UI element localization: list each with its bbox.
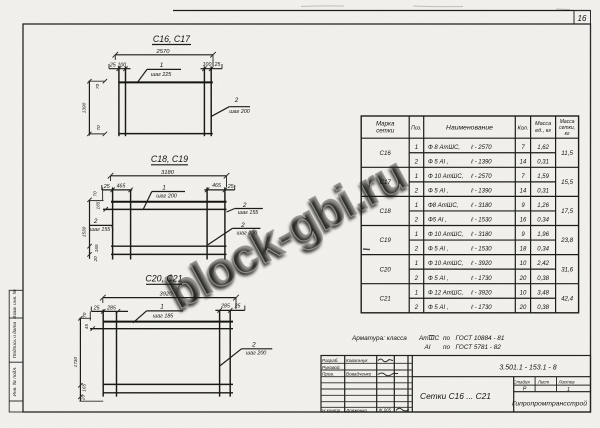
svg-text:ℓ - 1730: ℓ - 1730	[470, 304, 492, 311]
svg-text:165: 165	[82, 384, 87, 392]
svg-text:2: 2	[414, 305, 419, 311]
svg-text:25: 25	[214, 62, 221, 68]
svg-text:20: 20	[93, 256, 98, 263]
svg-text:шаг 185: шаг 185	[153, 313, 175, 319]
svg-text:2: 2	[414, 218, 419, 224]
svg-text:Р: Р	[523, 387, 527, 393]
svg-text:ℓ - 3920: ℓ - 3920	[470, 260, 492, 267]
svg-text:ℓ - 1730: ℓ - 1730	[470, 275, 492, 282]
drawing title cell Сетки С16...С21	[420, 377, 514, 412]
svg-text:1,96: 1,96	[537, 232, 549, 238]
svg-text:Кол.: Кол.	[518, 126, 529, 132]
svg-text:45: 45	[84, 324, 89, 330]
svg-text:С19: С19	[380, 237, 392, 244]
svg-text:Ф 5 АI ,: Ф 5 АI ,	[428, 305, 448, 311]
C20 overall dimension 3920	[100, 292, 239, 309]
svg-text:Ф5 АI ,: Ф5 АI ,	[428, 218, 447, 224]
svg-text:25: 25	[93, 306, 100, 312]
svg-text:Н.контр.: Н.контр.	[322, 408, 341, 413]
svg-text:0,31: 0,31	[537, 188, 549, 194]
svg-text:1: 1	[415, 145, 418, 151]
svg-text:ℓ - 3180: ℓ - 3180	[470, 231, 492, 238]
table mark and total mass cells	[380, 150, 574, 303]
svg-text:С16: С16	[380, 150, 392, 157]
svg-text:3,48: 3,48	[537, 290, 549, 296]
svg-text:2: 2	[251, 342, 256, 349]
svg-text:АтШС: АтШС	[418, 335, 439, 342]
svg-text:С17: С17	[380, 179, 392, 186]
svg-text:Ф 12 АтШС,: Ф 12 АтШС,	[428, 290, 463, 296]
svg-text:шаг 200: шаг 200	[246, 351, 267, 357]
table data rows	[414, 144, 550, 311]
mesh drawing C18,C19 title	[151, 154, 188, 165]
svg-text:3180: 3180	[161, 170, 175, 176]
svg-text:465: 465	[212, 183, 221, 189]
svg-text:АI: АI	[424, 344, 431, 351]
svg-text:Взам. инв. №: Взам. инв. №	[12, 289, 18, 319]
svg-text:Ковальчук: Ковальчук	[346, 358, 368, 363]
svg-text:Наименование: Наименование	[446, 125, 493, 132]
scan speck	[363, 248, 370, 251]
svg-text:Руковод.: Руковод.	[322, 365, 341, 370]
svg-text:Сетки С16 ... С21: Сетки С16 ... С21	[420, 391, 491, 401]
svg-text:ГОСТ 10884 - 81: ГОСТ 10884 - 81	[456, 335, 505, 342]
svg-text:2570: 2570	[156, 49, 171, 55]
svg-text:1: 1	[415, 203, 418, 209]
svg-text:10: 10	[520, 261, 527, 267]
svg-text:шаг 200: шаг 200	[229, 109, 250, 115]
svg-text:70: 70	[93, 191, 98, 197]
svg-text:465: 465	[117, 184, 126, 190]
svg-text:Вовайченко: Вовайченко	[346, 371, 372, 377]
C18 leader 2 шаг 155 left	[89, 218, 113, 233]
svg-text:ℓ - 1390: ℓ - 1390	[470, 158, 492, 165]
svg-text:1530: 1530	[81, 226, 86, 237]
svg-text:Листов: Листов	[558, 379, 576, 384]
svg-text:14: 14	[520, 159, 527, 165]
mesh drawing C20,C21 title	[145, 274, 182, 285]
svg-text:285: 285	[106, 305, 116, 311]
sheet number box	[574, 11, 591, 25]
svg-text:165: 165	[94, 244, 99, 252]
svg-text:Стадия: Стадия	[513, 379, 530, 384]
svg-text:Подпись и дата: Подпись и дата	[12, 322, 18, 359]
svg-text:Инв. № подл.: Инв. № подл.	[12, 367, 18, 397]
svg-text:25: 25	[234, 303, 241, 309]
svg-text:20: 20	[519, 305, 527, 311]
faint scan marks above top line	[301, 6, 570, 10]
svg-text:Ф 10 АтШС,: Ф 10 АтШС,	[428, 232, 463, 238]
document number cell	[412, 365, 590, 377]
C16 overall dimension 2570	[113, 49, 216, 66]
svg-text:С21: С21	[380, 295, 391, 302]
svg-text:ℓ - 3920: ℓ - 3920	[470, 289, 492, 296]
C16 edge spacing dims 25,100 left	[109, 63, 131, 72]
svg-text:15,5: 15,5	[561, 179, 574, 186]
signatures squiggles	[378, 359, 410, 413]
svg-text:42,4: 42,4	[561, 295, 574, 302]
svg-text:С20: С20	[380, 266, 392, 273]
svg-text:3.501.1 - 153.1 - 8: 3.501.1 - 153.1 - 8	[499, 365, 556, 372]
svg-text:2: 2	[93, 218, 98, 225]
reinforcement note	[351, 335, 505, 351]
svg-text:1,59: 1,59	[537, 174, 549, 180]
svg-text:Ф 5 АI ,: Ф 5 АI ,	[428, 159, 448, 165]
svg-text:ℓ - 3180: ℓ - 3180	[470, 202, 492, 209]
svg-text:2: 2	[414, 159, 419, 165]
svg-text:23,8: 23,8	[560, 237, 574, 244]
C20 mesh outline wires	[90, 310, 233, 397]
svg-text:Лист: Лист	[537, 379, 550, 384]
svg-text:1: 1	[415, 174, 418, 180]
svg-text:2: 2	[414, 188, 419, 194]
svg-text:2: 2	[234, 97, 239, 104]
svg-text:1730: 1730	[73, 357, 78, 368]
svg-text:25: 25	[227, 184, 234, 190]
C16 edge spacing dims 100,25 right	[201, 62, 223, 71]
title block outer	[321, 356, 591, 413]
svg-text:С16, С17: С16, С17	[153, 34, 191, 44]
C16 leader 1 шаг 225	[138, 62, 182, 82]
C18 leader 2 шаг 155 right	[227, 202, 263, 216]
svg-text:ед., кг: ед., кг	[535, 128, 551, 134]
svg-text:Разраб.: Разраб.	[322, 358, 339, 363]
svg-text:шаг 155: шаг 155	[90, 227, 112, 233]
C16 leader 2 шаг 200	[211, 97, 250, 117]
svg-text:С18: С18	[380, 208, 392, 215]
svg-text:70: 70	[96, 125, 101, 131]
C18 mesh outline wires	[103, 187, 227, 259]
svg-text:0,38: 0,38	[537, 276, 549, 282]
svg-text:2: 2	[414, 276, 419, 282]
svg-text:0,38: 0,38	[537, 305, 549, 311]
svg-text:шаг 200: шаг 200	[156, 193, 177, 199]
svg-text:1: 1	[415, 261, 418, 267]
svg-text:1,26: 1,26	[537, 203, 549, 209]
svg-text:1: 1	[160, 62, 164, 69]
C16 left height dimension 1390	[81, 79, 107, 136]
svg-text:Ф 10 АтШС,: Ф 10 АтШС,	[428, 174, 463, 180]
svg-text:по: по	[443, 344, 451, 351]
table header texts	[376, 119, 575, 137]
svg-text:1390: 1390	[81, 102, 86, 113]
svg-text:16: 16	[520, 218, 527, 224]
svg-text:0,34: 0,34	[537, 218, 549, 224]
svg-text:1: 1	[415, 232, 418, 238]
C20 left height dimension 1730	[73, 311, 103, 401]
svg-text:ℓ - 1390: ℓ - 1390	[470, 187, 492, 194]
svg-text:шаг 225: шаг 225	[151, 72, 173, 78]
svg-text:Поз.: Поз.	[411, 126, 421, 132]
C18 overall dimension 3180	[108, 170, 230, 187]
svg-text:Ф 5 АI ,: Ф 5 АI ,	[428, 276, 448, 282]
svg-text:Марка: Марка	[376, 121, 395, 128]
title block names rows	[322, 358, 372, 413]
svg-text:Ф8 АтШС,: Ф8 АтШС,	[428, 203, 458, 209]
svg-text:кг: кг	[565, 131, 570, 137]
C20 leader 1 шаг 185	[133, 304, 183, 323]
top border line	[173, 10, 591, 12]
svg-text:шаг 155: шаг 155	[238, 210, 260, 216]
svg-text:20: 20	[519, 276, 527, 282]
стадия лист листов row	[513, 377, 590, 393]
svg-text:Ф 8 АтШС,: Ф 8 АтШС,	[428, 145, 460, 151]
svg-text:1,62: 1,62	[537, 145, 549, 151]
svg-text:сетки: сетки	[376, 128, 395, 135]
svg-text:165: 165	[96, 201, 101, 209]
svg-text:1: 1	[415, 290, 418, 296]
mesh drawing C16,C17 title	[152, 34, 191, 45]
svg-text:25: 25	[109, 63, 116, 69]
svg-text:С18, С19: С18, С19	[151, 154, 188, 164]
svg-text:шаг 200: шаг 200	[237, 231, 258, 237]
svg-text:1: 1	[162, 185, 166, 192]
C20 edge spacing dims 285,25 right	[215, 303, 244, 312]
svg-text:16: 16	[578, 14, 587, 23]
svg-text:285: 285	[220, 303, 230, 309]
svg-text:70: 70	[82, 312, 87, 318]
svg-text:по: по	[443, 335, 451, 342]
svg-text:14: 14	[520, 188, 527, 194]
svg-text:Ф 5 АI ,: Ф 5 АI ,	[428, 247, 448, 253]
svg-text:70: 70	[95, 84, 100, 90]
C18 leader 1 шаг 200	[143, 185, 185, 210]
svg-text:ℓ - 2570: ℓ - 2570	[470, 144, 492, 151]
svg-text:Довженко: Довженко	[345, 408, 367, 413]
svg-text:Масса: Масса	[535, 121, 551, 127]
svg-text:2: 2	[414, 247, 419, 253]
svg-text:11,5: 11,5	[561, 150, 573, 157]
C18 leader 2 шаг 200 right	[208, 222, 261, 245]
svg-text:Ф 10 АтШС,: Ф 10 АтШС,	[428, 261, 463, 267]
C16 mesh outline wires	[118, 67, 213, 137]
svg-text:0,34: 0,34	[537, 247, 549, 253]
svg-text:ℓ - 2570: ℓ - 2570	[470, 173, 492, 180]
svg-text:ℓ - 1530: ℓ - 1530	[470, 217, 492, 224]
svg-text:ℓ - 1530: ℓ - 1530	[470, 246, 492, 253]
svg-text:20: 20	[80, 395, 85, 402]
svg-text:0,31: 0,31	[537, 159, 549, 165]
svg-text:Арматура: класса: Арматура: класса	[351, 335, 407, 342]
svg-text:18: 18	[520, 247, 527, 253]
left stamp strip	[9, 289, 23, 412]
C18 left height dimension 1530	[81, 188, 103, 263]
svg-text:С20, С21: С20, С21	[145, 274, 182, 284]
specification table grid	[361, 116, 578, 313]
svg-text:Ж.005: Ж.005	[378, 408, 392, 413]
C18 edge spacing dims 465,25 right	[204, 183, 234, 192]
svg-text:17,5: 17,5	[561, 208, 574, 215]
svg-text:3920: 3920	[160, 292, 174, 298]
svg-text:ГОСТ 5781 - 82: ГОСТ 5781 - 82	[456, 344, 502, 351]
organization cell	[512, 399, 587, 407]
svg-text:1: 1	[160, 304, 164, 311]
C20 edge spacing dims 25,285 left	[91, 305, 128, 313]
svg-text:1: 1	[567, 387, 570, 393]
svg-text:Гипропромтрансстрой: Гипропромтрансстрой	[512, 399, 587, 407]
svg-text:Ф 5 АI ,: Ф 5 АI ,	[428, 188, 448, 194]
C20 leader 2 шаг 200	[220, 342, 272, 366]
svg-text:10: 10	[520, 290, 527, 296]
C18 edge spacing dims 25,465 left	[102, 184, 133, 193]
svg-text:25: 25	[103, 184, 110, 190]
svg-text:31,6: 31,6	[561, 266, 574, 273]
svg-text:Пров.: Пров.	[322, 372, 334, 377]
svg-text:2,42: 2,42	[536, 261, 549, 267]
